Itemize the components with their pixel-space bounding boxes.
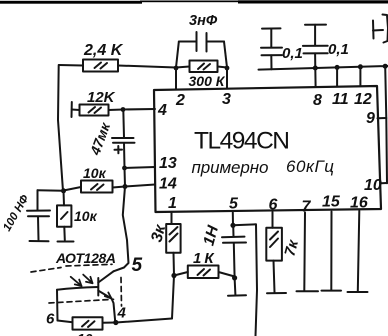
emitter line: [98, 291, 111, 299]
svg-text:16: 16: [350, 195, 368, 212]
svg-text:АОТ128А: АОТ128А: [55, 250, 116, 266]
capacitor C 3nF: [176, 32, 227, 68]
resistor R 7k: [266, 228, 282, 292]
collector line: [98, 271, 113, 282]
svg-text:300 К: 300 К: [189, 73, 226, 89]
wire node3 to pin 3: [226, 68, 228, 89]
svg-text:6: 6: [46, 311, 55, 328]
dashed outline: [31, 268, 61, 273]
wire left vertical rail: [58, 65, 63, 191]
node left junction: [61, 188, 66, 193]
wire node14 down to optocoupler collector (pin 5 of opto): [114, 187, 129, 272]
wire pin5 stub: [232, 213, 234, 226]
wire emitter down to node opto4: [112, 299, 116, 323]
svg-text:12K: 12K: [87, 89, 116, 106]
node pin13: [122, 166, 127, 171]
ground bar 100nF: [30, 240, 49, 242]
svg-text:1К: 1К: [193, 250, 217, 267]
wire node13 to pin 13: [125, 167, 156, 168]
resistor R 10k vertical: [57, 191, 71, 240]
wire node4 to pin 4: [123, 108, 155, 111]
wire pin10 tick: [381, 182, 387, 184]
resistor R 12K: [72, 102, 124, 117]
wire box bottom to base resistor: [58, 321, 73, 323]
wire node14 to pin 14: [125, 185, 155, 187]
node pin5: [230, 223, 235, 228]
svg-text:12: 12: [354, 91, 372, 108]
svg-text:4: 4: [117, 305, 127, 322]
capacitor C 0,1 second: [303, 25, 328, 69]
node 1N/1K: [232, 275, 237, 280]
scan border top bar: [0, 0, 388, 3]
svg-text:60кГц: 60кГц: [286, 157, 334, 176]
svg-text:14: 14: [159, 176, 177, 193]
wire pin15 down: [330, 212, 332, 291]
node pin4: [121, 107, 126, 112]
node pin14: [123, 184, 128, 189]
wire pin11 drop: [336, 67, 338, 86]
svg-text:7: 7: [302, 199, 312, 216]
wire pin7 down: [303, 213, 306, 291]
node bus pin12: [358, 64, 363, 69]
wire node5 right and long down: [233, 224, 257, 336]
svg-text:2: 2: [175, 92, 185, 109]
resistor R 1K: [174, 266, 235, 279]
svg-text:примерно: примерно: [192, 158, 269, 177]
svg-text:8: 8: [313, 92, 322, 109]
wire box left edge: [56, 290, 59, 321]
wire up to 1K node: [172, 276, 174, 319]
svg-text:10к: 10к: [74, 208, 98, 224]
svg-text:5: 5: [229, 196, 239, 213]
node bus pin8: [313, 66, 318, 71]
svg-text:10к: 10к: [83, 165, 107, 181]
wire node2 to pin 2: [175, 68, 177, 89]
ground bar pin7: [297, 290, 319, 292]
wire right rail down: [385, 66, 387, 183]
svg-text:0,1: 0,1: [282, 45, 303, 62]
svg-text:9: 9: [366, 110, 375, 127]
wire pin9 tick: [378, 117, 387, 119]
capacitor C 47uK electrolytic: [112, 110, 135, 169]
node pin3: [225, 66, 230, 71]
svg-text:10к: 10к: [77, 331, 101, 336]
chip U1 TL494CN outline: [154, 86, 381, 212]
wire pin16 down: [358, 211, 360, 291]
svg-text:13: 13: [159, 155, 177, 172]
transistor base bar: [97, 278, 99, 296]
light arrow 2: [83, 275, 92, 284]
svg-text:4: 4: [157, 102, 167, 119]
wire pin12 drop: [359, 67, 361, 86]
svg-text:10: 10: [364, 177, 382, 194]
emitter arrowhead: [105, 292, 112, 298]
resistor R 10k horizontal: [64, 181, 126, 193]
capacitor C 1N: [222, 225, 246, 278]
ground bar 10k vertical: [58, 241, 74, 243]
ground bar pin15: [322, 290, 342, 292]
light arrow 1: [71, 277, 82, 286]
svg-text:11: 11: [332, 91, 349, 108]
node 3k/1K: [171, 273, 176, 278]
svg-text:2,4 K: 2,4 K: [83, 42, 124, 59]
ground stem pin5 branch: [234, 278, 237, 295]
resistor R 2,4K: [83, 60, 118, 72]
node bus pin11: [335, 65, 340, 70]
resistor R 300K: [176, 61, 227, 73]
node opto pin4: [113, 320, 118, 325]
svg-text:3нФ: 3нФ: [189, 13, 218, 29]
ground bar pin16: [348, 291, 368, 293]
node bus right: [383, 64, 388, 69]
resistor R 3k: [166, 224, 180, 276]
svg-text:1: 1: [168, 195, 177, 212]
node pin2: [174, 66, 179, 71]
capacitor C 0,1 first: [261, 28, 282, 69]
wire supply bus: [259, 66, 388, 70]
svg-text:TL494CN: TL494CN: [194, 128, 291, 155]
connector symbol top right: [373, 15, 388, 43]
optocoupler U2 AOT128A phototransistor: [31, 264, 122, 306]
wire opto node right: [116, 319, 172, 323]
wire 2,4K right lead to node2: [118, 66, 176, 68]
wire base to box left: [57, 287, 98, 290]
wire pin8 drop: [314, 68, 316, 87]
wire 2,4K left lead: [59, 64, 83, 67]
ground bar pin5 branch: [228, 294, 246, 296]
svg-text:15: 15: [322, 194, 341, 211]
svg-text:5: 5: [132, 255, 143, 276]
resistor R base 10k bottom: [73, 317, 116, 329]
wire pin6 stub: [272, 212, 274, 228]
wire node13 to node14: [124, 168, 127, 187]
ground bar 7k: [267, 292, 286, 294]
svg-text:6: 6: [269, 197, 278, 214]
svg-text:3: 3: [222, 91, 231, 108]
wire pin1 stub: [171, 212, 173, 224]
capacitor C 100nF: [27, 190, 64, 240]
svg-text:0,1: 0,1: [328, 41, 349, 58]
